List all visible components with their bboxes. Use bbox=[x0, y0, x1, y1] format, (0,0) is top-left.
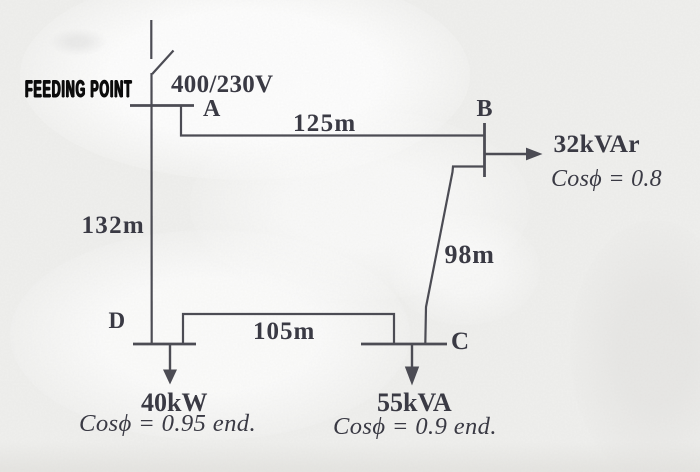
node C label bbox=[451, 329, 469, 354]
busbar D bbox=[133, 343, 196, 346]
label 32kVAr bbox=[554, 131, 640, 157]
label 55kVA bbox=[377, 390, 452, 416]
label 40kW bbox=[141, 390, 207, 416]
label Cos phi = 0.95 end. bbox=[79, 412, 256, 437]
busbar C bbox=[361, 343, 447, 346]
label 98m bbox=[445, 242, 495, 268]
busbar B (vertical) bbox=[483, 123, 486, 177]
wire: feeder B to C (98m run) bbox=[425, 167, 484, 345]
label 400/230V bbox=[171, 72, 273, 97]
label 132m bbox=[82, 213, 146, 238]
scan background darker band bottom bbox=[0, 442, 700, 472]
load arrow at B (32kVAr) bbox=[485, 148, 543, 161]
label FEEDING POINT bbox=[25, 78, 132, 102]
scan background white blob near 98m bbox=[390, 215, 540, 325]
node A label bbox=[203, 97, 220, 121]
wire: main feeder A to D (132m run) bbox=[150, 73, 152, 344]
busbar A bbox=[130, 104, 194, 107]
label 105m bbox=[253, 319, 315, 344]
wire: incoming supply vertical bbox=[150, 20, 152, 59]
label 125m bbox=[293, 111, 357, 136]
load arrow at D (40kW) bbox=[163, 345, 177, 385]
label Cos phi = 0.8 bbox=[551, 167, 662, 191]
scan background mottle right bbox=[570, 220, 700, 472]
scan background white blob top-left bbox=[20, 0, 470, 180]
wire: feeder D to C (105m run) bbox=[183, 314, 394, 344]
label Cos phi = 0.9 end. bbox=[333, 415, 497, 440]
node B label bbox=[477, 97, 493, 121]
load arrow at C (55kVA) bbox=[405, 345, 419, 386]
switch blade (feeding point isolator) bbox=[152, 51, 173, 75]
scan background white blob middle bbox=[190, 110, 530, 300]
scan background white blob left-middle bbox=[10, 230, 410, 440]
wire: feeder A to B (125m run) bbox=[181, 106, 484, 136]
node D label bbox=[109, 309, 126, 332]
